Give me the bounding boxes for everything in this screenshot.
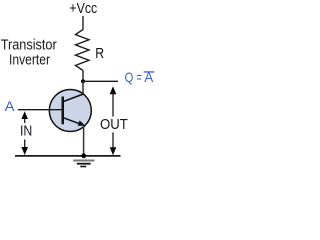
svg-text:OUT: OUT [100, 116, 128, 133]
OUT measurement arrow (top segment) [110, 86, 117, 116]
wire base input [18, 109, 62, 111]
wire resistor bottom to collector node [82, 71, 84, 82]
transistor base bar [62, 97, 65, 125]
svg-text:+Vcc: +Vcc [69, 0, 97, 17]
wire collector node to output Q [83, 80, 118, 82]
wire bottom reference baseline [15, 155, 121, 157]
wire emitter to ground [83, 127, 85, 156]
resistor R [76, 30, 90, 71]
transistor Q1 (NPN) body circle [49, 90, 91, 132]
svg-text:R: R [95, 45, 104, 62]
node junction dot (collector node) [81, 79, 85, 83]
transistor collector diagonal [64, 94, 84, 102]
svg-text:Inverter: Inverter [9, 52, 50, 69]
ground symbol [73, 161, 94, 167]
IN measurement arrow (top segment) [22, 111, 28, 123]
svg-text:=: = [137, 69, 142, 85]
svg-text:Q: Q [125, 69, 134, 85]
wire collector vertical into transistor [82, 81, 84, 95]
OUT measurement arrow (bottom segment) [110, 133, 117, 156]
transistor emitter diagonal with arrow [64, 118, 81, 124]
svg-text:IN: IN [20, 123, 32, 140]
wire Vcc to resistor top [82, 16, 84, 30]
node ground junction dot [81, 153, 86, 158]
IN measurement arrow (bottom segment) [21, 140, 28, 156]
svg-text:A: A [5, 98, 15, 114]
node Q = A-bar output label [125, 69, 155, 85]
